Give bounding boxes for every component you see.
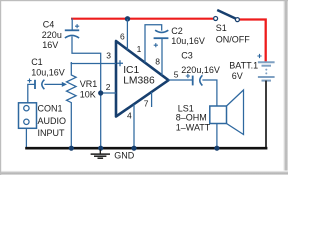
node: dot C4/pin2 vertical bbox=[98, 146, 103, 151]
op-amp U1 LM386 triangle bbox=[116, 41, 169, 117]
wire: +V red rail left segment bbox=[71, 18, 213, 20]
wire: battery minus to ground rail (black) bbox=[265, 81, 267, 148]
svg-text:3: 3 bbox=[106, 51, 111, 61]
wire: pin 2 to ground bbox=[101, 92, 116, 94]
svg-text:ON/OFF: ON/OFF bbox=[216, 34, 250, 44]
svg-text:10u,16V: 10u,16V bbox=[171, 36, 205, 46]
capacitor C1 bbox=[27, 79, 44, 90]
svg-text:C4: C4 bbox=[43, 20, 55, 30]
svg-text:S1: S1 bbox=[216, 23, 227, 33]
svg-text:BATT.1: BATT.1 bbox=[229, 60, 258, 70]
plus mark at pin3 input bbox=[117, 60, 123, 66]
wire: pin 6 supply bbox=[126, 19, 128, 50]
wire: pin 8 from C2 down bbox=[161, 38, 163, 75]
node: junction dot pin2/C4/VR1 vertical bbox=[98, 90, 103, 95]
ground symbol bbox=[91, 149, 110, 158]
wire: +V red rail right segment to battery bbox=[239, 20, 265, 62]
svg-text:5: 5 bbox=[174, 69, 179, 79]
switch S1 bbox=[214, 10, 240, 22]
capacitor C4 bbox=[65, 24, 79, 38]
capacitor C3 bbox=[186, 74, 203, 86]
node: dot pin4 bbox=[131, 146, 136, 151]
wire: pin 3 input bbox=[71, 63, 116, 65]
svg-text:INPUT: INPUT bbox=[38, 128, 66, 138]
potentiometer VR1 bbox=[67, 62, 77, 148]
svg-text:4: 4 bbox=[127, 111, 132, 121]
wire: CON1 bottom to ground rail bbox=[25, 128, 27, 147]
capacitor C2 bbox=[154, 30, 169, 47]
wire: ground rail bbox=[25, 147, 267, 150]
wire: C4 + stub from rail bbox=[71, 18, 73, 29]
svg-text:10K: 10K bbox=[80, 90, 96, 100]
svg-text:220u: 220u bbox=[42, 30, 62, 40]
node: dot speaker return bbox=[214, 146, 219, 151]
node: junction dot on red rail (pin6 tap) bbox=[125, 16, 130, 21]
svg-text:C3: C3 bbox=[181, 51, 193, 61]
svg-text:C1: C1 bbox=[31, 57, 43, 67]
wire: C1 left plate to CON1 bbox=[28, 84, 35, 103]
svg-text:16V: 16V bbox=[42, 40, 58, 50]
wire: pin 1 up and over to C2 bbox=[145, 25, 162, 63]
svg-text:8: 8 bbox=[155, 56, 160, 66]
wire: pin 5 output bbox=[169, 79, 193, 81]
node: dot VR1 bottom bbox=[69, 146, 74, 151]
speaker LS1 bbox=[210, 90, 244, 135]
svg-text:C2: C2 bbox=[171, 26, 183, 36]
svg-text:6V: 6V bbox=[232, 71, 243, 81]
wire: C1 to VR1 wiper arrow bbox=[44, 83, 62, 85]
svg-text:IC1: IC1 bbox=[123, 65, 139, 76]
svg-text:VR1: VR1 bbox=[80, 79, 98, 89]
svg-text:GND: GND bbox=[114, 151, 135, 161]
battery BATT.1 bbox=[257, 54, 274, 81]
wire: speaker to ground rail bbox=[216, 124, 218, 148]
svg-text:CON1: CON1 bbox=[38, 104, 63, 114]
svg-text:2: 2 bbox=[106, 82, 111, 92]
svg-text:10u,16V: 10u,16V bbox=[31, 67, 65, 77]
wire: C3 to speaker bbox=[202, 80, 217, 106]
svg-text:LM386: LM386 bbox=[123, 76, 155, 87]
svg-text:1–WATT: 1–WATT bbox=[176, 122, 211, 132]
svg-text:AUDIO: AUDIO bbox=[38, 116, 67, 126]
svg-text:6: 6 bbox=[120, 31, 125, 41]
svg-text:7: 7 bbox=[144, 99, 149, 109]
wire: pin 4 to ground bbox=[133, 104, 135, 147]
connector CON1 bbox=[19, 103, 37, 129]
svg-text:8–OHM: 8–OHM bbox=[176, 113, 207, 123]
wire: C4 minus to ground vertical bbox=[72, 37, 101, 148]
wire: pin 7 stub bbox=[151, 92, 153, 107]
svg-text:220u,16V: 220u,16V bbox=[181, 65, 220, 75]
svg-text:1: 1 bbox=[137, 44, 142, 54]
